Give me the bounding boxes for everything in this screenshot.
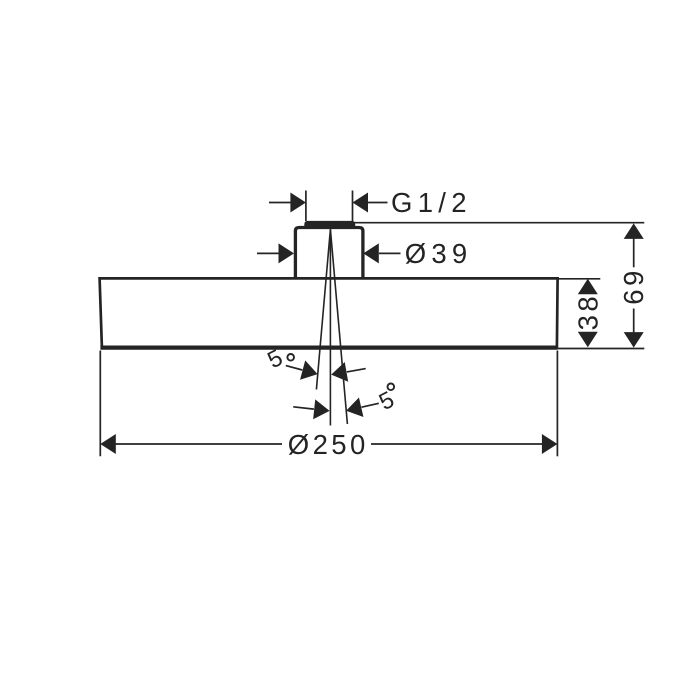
spray angle line left 5 deg <box>316 229 330 389</box>
angle annotation lower 5 deg <box>293 384 398 421</box>
dimension G1/2 <box>269 187 472 221</box>
dimension 69 <box>352 223 649 349</box>
connector collar cap <box>304 221 355 227</box>
svg-text:Ø39: Ø39 <box>405 238 473 269</box>
ceiling connector body <box>295 228 363 280</box>
svg-text:38: 38 <box>572 293 603 331</box>
shower head spray face bottom edge <box>100 346 557 350</box>
svg-text:Ø250: Ø250 <box>288 429 369 460</box>
svg-text:5: 5 <box>375 386 398 415</box>
spray angle line right 5 deg <box>330 229 347 424</box>
dimension 38 <box>558 279 603 348</box>
shower head disc outline <box>100 278 558 347</box>
svg-text:G1/2: G1/2 <box>391 187 472 218</box>
svg-text:69: 69 <box>618 267 649 305</box>
spray axis center line <box>329 229 331 425</box>
angle annotation upper 5 deg <box>263 344 365 384</box>
dimension diameter 39 <box>257 238 472 269</box>
dimension diameter 250 <box>100 351 557 460</box>
